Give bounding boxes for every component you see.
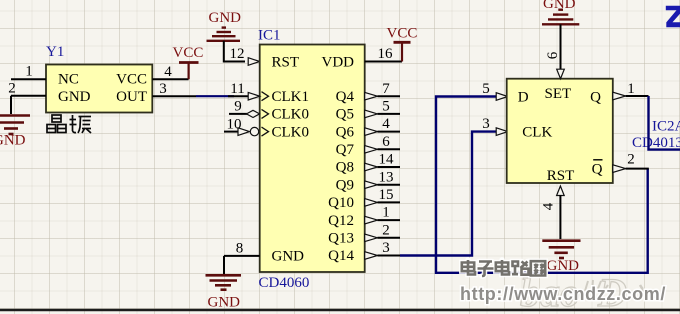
svg-text:14: 14 <box>379 152 395 168</box>
svg-text:GND: GND <box>543 0 576 12</box>
svg-text:GND: GND <box>209 10 242 26</box>
svg-text:6: 6 <box>545 51 561 59</box>
sheet border bottom <box>0 309 680 311</box>
pin 10 (CLK0) of IC1 <box>224 116 269 136</box>
svg-text:Q9: Q9 <box>336 177 354 193</box>
svg-text:Q12: Q12 <box>328 213 354 229</box>
svg-text:Q7: Q7 <box>336 142 355 158</box>
svg-text:D: D <box>518 89 529 105</box>
svg-text:1: 1 <box>627 81 635 97</box>
svg-text:2: 2 <box>627 152 635 168</box>
pin 15 (Q10) of IC1 <box>365 187 400 206</box>
svg-text:GND: GND <box>58 89 91 105</box>
pin 6 (SET) of IC2A <box>545 51 564 78</box>
svg-text:VCC: VCC <box>173 45 204 61</box>
svg-text:3: 3 <box>482 116 490 132</box>
svg-text:Q10: Q10 <box>328 195 354 211</box>
pin 1 (Q) of IC2A <box>613 81 649 100</box>
pin 9 (CLK0) of IC1 <box>229 99 269 119</box>
svg-text:Q13: Q13 <box>328 231 354 247</box>
svg-text:16: 16 <box>378 46 394 62</box>
svg-text:1: 1 <box>25 64 33 80</box>
pin 14 (Q8) of IC1 <box>365 152 400 171</box>
svg-text:5: 5 <box>482 81 490 97</box>
svg-text:Q: Q <box>592 161 603 177</box>
pin 7 (Q4) of IC1 <box>365 81 400 100</box>
pin 2 (Q13) of IC1 <box>365 222 400 241</box>
svg-text:2: 2 <box>8 81 16 97</box>
svg-text:CLK: CLK <box>522 125 552 141</box>
wire: IC2A RST down to ground <box>559 195 561 239</box>
pin 11 (CLK1) of IC1 <box>228 81 269 101</box>
svg-text:6: 6 <box>382 134 390 150</box>
svg-text:http://www.cndzz.com/: http://www.cndzz.com/ <box>460 284 666 304</box>
IC1 body <box>260 45 365 273</box>
pin 12 (RST) of IC1 <box>230 46 260 65</box>
svg-text:VCC: VCC <box>387 26 418 42</box>
pin 8 (GND) of IC1 <box>224 241 260 257</box>
wire: Y1 OUT to IC1 CLK1 <box>196 95 234 97</box>
svg-text:VDD: VDD <box>322 54 355 70</box>
ground symbol above IC2A SET <box>542 10 579 25</box>
logo fragment (blue Z) top right <box>666 6 680 27</box>
svg-text:Q14: Q14 <box>328 248 354 264</box>
pin 5 (Q5) of IC1 <box>365 99 400 118</box>
ground symbol at Y1 pin2 <box>0 116 30 135</box>
svg-text:GND: GND <box>0 133 26 149</box>
svg-text:NC: NC <box>58 72 79 88</box>
wire: IC2A /Q feedback to D <box>436 97 648 273</box>
wire: IC2A Q output to right edge <box>649 96 680 150</box>
svg-text:SET: SET <box>545 86 572 102</box>
watermark text 电子电路网 <box>462 260 545 276</box>
pin 1 (Q12) of IC1 <box>365 205 400 224</box>
ground symbol below IC1 <box>206 275 242 289</box>
svg-text:Y1: Y1 <box>46 44 64 60</box>
pin 4 (RST) of IC2A <box>541 186 565 210</box>
svg-text:Q8: Q8 <box>336 160 354 176</box>
svg-text:1: 1 <box>382 205 390 221</box>
svg-text:IC2A: IC2A <box>652 119 680 135</box>
wire: ground to IC1 RST <box>224 41 245 62</box>
svg-text:Q4: Q4 <box>336 89 355 105</box>
pin 4 (Q6) of IC1 <box>365 116 400 135</box>
IC2A body <box>507 79 613 184</box>
wire: ground to IC2A SET <box>560 24 562 69</box>
svg-text:GND: GND <box>272 249 305 265</box>
svg-text:9: 9 <box>234 99 242 115</box>
svg-text:15: 15 <box>379 187 394 203</box>
pin 16 (VDD) of IC1 <box>365 46 402 62</box>
svg-text:3: 3 <box>159 81 167 97</box>
svg-text:2: 2 <box>382 222 390 238</box>
svg-text:3: 3 <box>382 240 390 256</box>
pin 5 (D) of IC2A <box>482 81 507 100</box>
pin 3 (CLK) of IC2A <box>482 116 516 136</box>
crystal Y1 body <box>46 65 152 113</box>
svg-text:CLK0: CLK0 <box>272 124 310 140</box>
svg-text:CLK0: CLK0 <box>272 107 310 123</box>
pin 2 (GND) of Y1 <box>8 81 46 97</box>
pin 4 (VCC) of Y1 <box>152 64 188 80</box>
faint taobao watermark <box>520 270 662 314</box>
svg-text:4: 4 <box>541 202 557 210</box>
svg-text:IC1: IC1 <box>258 28 281 44</box>
pin 3 (Q14) of IC1 <box>365 240 400 259</box>
svg-text:12: 12 <box>230 46 245 62</box>
wire: IC1 GND pin down to ground <box>223 256 225 274</box>
svg-text:CLK1: CLK1 <box>272 89 310 105</box>
svg-text:RST: RST <box>272 54 300 70</box>
svg-text:13: 13 <box>379 169 394 185</box>
svg-text:RST: RST <box>547 168 575 184</box>
svg-text:CD4060: CD4060 <box>259 275 310 291</box>
svg-text:OUT: OUT <box>116 89 147 105</box>
svg-text:Q: Q <box>590 89 601 105</box>
value label 晶振 (crystal) <box>47 115 91 133</box>
pin 1 (NC) of Y1 <box>11 64 46 80</box>
svg-text:11: 11 <box>230 81 244 97</box>
VCC power symbol at IC1 <box>394 42 411 61</box>
svg-text:Q6: Q6 <box>336 124 355 140</box>
svg-text:VCC: VCC <box>116 72 147 88</box>
pin 3 (OUT) of Y1 <box>152 81 196 97</box>
ground symbol below IC2A <box>542 241 580 258</box>
svg-text:Q5: Q5 <box>336 107 354 123</box>
pin 13 (Q9) of IC1 <box>365 169 400 188</box>
VCC power symbol at Y1 <box>179 63 199 80</box>
pin 2 (/Q) of IC2A <box>613 152 649 173</box>
pin 6 (Q7) of IC1 <box>365 134 400 153</box>
svg-text:5: 5 <box>382 99 390 115</box>
svg-text:4: 4 <box>382 116 390 132</box>
wire: Y1 pin2 down to ground <box>10 96 12 114</box>
ground symbol above IC1 pin 12 <box>207 28 241 41</box>
svg-text:8: 8 <box>236 241 244 257</box>
svg-text:7: 7 <box>382 81 390 97</box>
svg-text:4: 4 <box>164 64 172 80</box>
wire: IC1 Q14 to IC2A CLK <box>400 132 496 256</box>
svg-text:GND: GND <box>208 295 241 311</box>
